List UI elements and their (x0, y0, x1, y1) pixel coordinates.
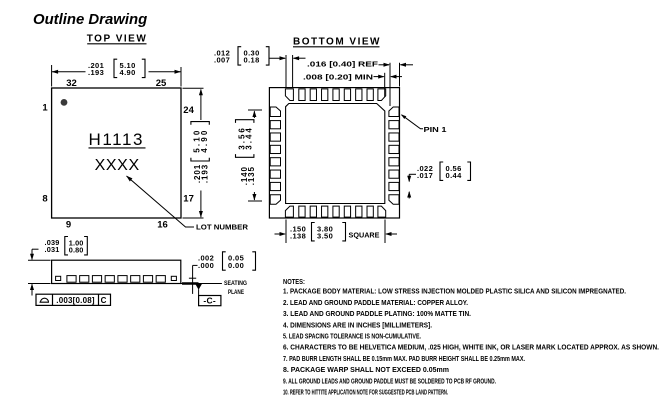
svg-text:8. PACKAGE WARP SHALL NOT EXCE: 8. PACKAGE WARP SHALL NOT EXCEED 0.05mm (283, 365, 449, 374)
svg-text:1: 1 (42, 102, 48, 113)
svg-text:6. CHARACTERS TO BE HELVETICA: 6. CHARACTERS TO BE HELVETICA MEDIUM, .0… (283, 343, 659, 352)
svg-text:24: 24 (183, 105, 194, 116)
bottom view right column leads (pin 1 chamfered) (389, 107, 399, 204)
svg-text:2. LEAD AND GROUND PADDLE MATE: 2. LEAD AND GROUND PADDLE MATERIAL: COPP… (283, 298, 468, 307)
svg-text:.031: .031 (45, 245, 60, 254)
flatness feature control frame .003[0.08] C (36, 294, 111, 305)
side view height dimension .039/.031 [1.00/0.80] (28, 237, 87, 296)
bottom view top row leads (285, 89, 385, 101)
side view package body (52, 260, 181, 283)
svg-text:8: 8 (42, 194, 47, 205)
lot number leader (126, 176, 248, 232)
svg-text:LOT NUMBER: LOT NUMBER (196, 222, 249, 231)
part marking H1113 (underlined) (89, 130, 146, 149)
svg-text:9: 9 (66, 220, 71, 231)
svg-text:4.90: 4.90 (120, 68, 136, 77)
svg-text:BOTTOM VIEW: BOTTOM VIEW (293, 37, 381, 48)
notes block (283, 277, 659, 397)
svg-text:4.90: 4.90 (200, 128, 209, 152)
svg-text:.193: .193 (200, 164, 209, 183)
svg-text:3.50: 3.50 (317, 232, 333, 241)
svg-text:SEATING: SEATING (224, 280, 247, 287)
svg-text:0.80: 0.80 (69, 246, 84, 255)
svg-text:7. PAD BURR LENGTH SHALL BE 0.: 7. PAD BURR LENGTH SHALL BE 0.15mm MAX. … (283, 354, 525, 363)
svg-text:0.18: 0.18 (244, 56, 260, 65)
svg-text:TOP VIEW: TOP VIEW (87, 34, 148, 45)
svg-text:.008 [0.20] MIN: .008 [0.20] MIN (303, 72, 373, 81)
svg-text:.007: .007 (214, 56, 230, 65)
svg-text:.138: .138 (290, 232, 306, 241)
lead pitch dimension .016 [0.40] REF (307, 60, 413, 107)
svg-text:5. LEAD SPACING TOLERANCE IS N: 5. LEAD SPACING TOLERANCE IS NON-CUMULAT… (283, 332, 421, 341)
exposed ground paddle (chamfered pin-1 corner) (286, 104, 385, 204)
svg-text:3. LEAD AND GROUND PADDLE PLAT: 3. LEAD AND GROUND PADDLE PLATING: 100% … (283, 309, 471, 318)
svg-text:Outline Drawing: Outline Drawing (33, 12, 147, 28)
svg-text:17: 17 (183, 194, 194, 205)
svg-text:9. ALL GROUND LEADS AND GROUND: 9. ALL GROUND LEADS AND GROUND PADDLE MU… (283, 376, 496, 385)
svg-text:10. REFER TO HITTITE APPLICATI: 10. REFER TO HITTITE APPLICATION NOTE FO… (283, 388, 448, 397)
svg-text:3.44: 3.44 (245, 126, 254, 150)
svg-text:.017: .017 (417, 171, 433, 180)
svg-text:16: 16 (157, 220, 168, 231)
svg-text:.003[0.08]: .003[0.08] (56, 296, 95, 305)
lead spacing dimension .008 [0.20] MIN (303, 72, 402, 97)
lead coplanarity dimension .002/.000 [0.05/0.00] (189, 252, 256, 294)
svg-text:NOTES:: NOTES: (283, 277, 305, 286)
top view height dimension .201/.193 [5.10/4.90] rotated (183, 88, 210, 218)
svg-text:0.44: 0.44 (446, 171, 463, 180)
top view label (87, 34, 148, 45)
svg-text:-C-: -C- (203, 295, 216, 305)
svg-text:SQUARE: SQUARE (349, 230, 380, 239)
top view package body (52, 88, 181, 218)
pin numbers around top view (42, 78, 194, 231)
svg-text:.193: .193 (88, 68, 104, 77)
svg-text:.000: .000 (198, 261, 214, 270)
paddle height dimension .140/.135 [3.56/3.44] rotated (236, 110, 263, 201)
svg-text:XXXX: XXXX (95, 157, 140, 174)
lead length dimension .022/.017 [0.56/0.44] (407, 162, 470, 199)
svg-text:C: C (101, 296, 107, 305)
bottom view label (293, 37, 381, 48)
pin 1 index dot (61, 99, 68, 106)
svg-text:25: 25 (156, 78, 167, 89)
top view width dimension .201/.193 [5.10/4.90] (52, 59, 181, 86)
paddle width dimension .150/.138 [3.80/3.50] SQUARE (275, 220, 398, 244)
bottom view package outline (269, 88, 399, 218)
svg-text:PLANE: PLANE (228, 289, 244, 296)
bottom view left column leads (270, 107, 280, 204)
bottom view bottom row leads (285, 206, 385, 217)
svg-text:1. PACKAGE BODY MATERIAL: LOW: 1. PACKAGE BODY MATERIAL: LOW STRESS INJ… (283, 287, 626, 296)
pin 1 leader and label (401, 114, 447, 134)
lead width dimension .012/.007 [0.30/0.18] (214, 47, 306, 87)
svg-text:.016 [0.40] REF: .016 [0.40] REF (307, 60, 379, 69)
seating plane line and datum C (181, 284, 222, 306)
svg-text:4. DIMENSIONS ARE IN INCHES [M: 4. DIMENSIONS ARE IN INCHES [MILLIMETERS… (283, 320, 432, 329)
svg-text:0.00: 0.00 (228, 261, 244, 270)
svg-text:32: 32 (66, 78, 77, 89)
svg-text:.135: .135 (247, 166, 256, 185)
seating plane label (224, 280, 247, 296)
side view leads (56, 276, 177, 283)
svg-text:H1113: H1113 (89, 130, 145, 149)
svg-text:PIN 1: PIN 1 (424, 125, 447, 134)
